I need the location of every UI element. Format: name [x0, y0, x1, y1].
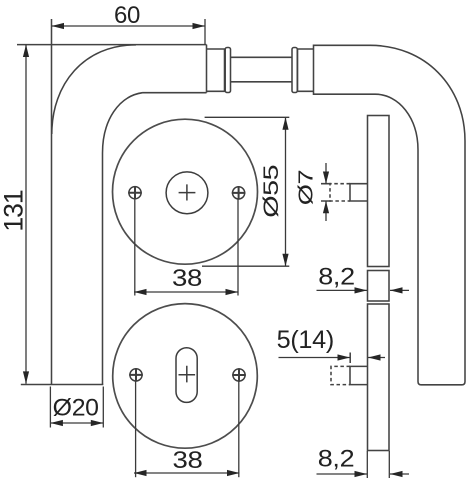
- arrowhead 38 lower right: [227, 470, 240, 476]
- arrowhead 38 upper left: [134, 289, 147, 295]
- svg-text:5(14): 5(14): [277, 326, 334, 354]
- dimension 38 upper line: [134, 291, 238, 293]
- arrowhead D20 right: [91, 420, 104, 426]
- rosette side-view upper plate: [368, 116, 390, 267]
- lower rosette keyhole oval: [176, 348, 197, 403]
- arrowhead 60 left: [52, 23, 65, 29]
- lower rosette right screw: [232, 368, 246, 381]
- dimension 38 lower left extension: [135, 382, 137, 478]
- svg-text:Ø7: Ø7: [295, 170, 317, 206]
- arrowhead 131 top: [23, 45, 29, 57]
- svg-text:131: 131: [0, 190, 28, 231]
- dimension 5(14) leader line: [279, 357, 386, 359]
- rosette side-view middle spacer: [368, 271, 390, 302]
- arrowhead D55 top: [282, 117, 288, 129]
- dimension D20 left extension: [49, 387, 51, 428]
- dimension 60 line: [52, 25, 206, 27]
- lower rosette left screw: [129, 368, 143, 381]
- upper rosette spindle cross: [179, 184, 196, 200]
- arrowhead 8,2 lower left: [355, 471, 368, 477]
- svg-text:Ø55: Ø55: [260, 165, 283, 218]
- dimension 60 right extension line: [204, 19, 206, 45]
- upper rosette right screw: [232, 186, 246, 199]
- dimension D7 arrow lines: [325, 163, 327, 221]
- arrowhead D7 top: [323, 172, 329, 184]
- arrowhead 8,2 lower right: [390, 471, 403, 477]
- spindle collar right: [298, 49, 314, 91]
- dimension D55 bottom extension: [202, 265, 289, 267]
- upper rosette circle front view: [113, 119, 258, 264]
- arrowhead 5(14) left: [338, 354, 351, 360]
- dimension D20 line: [50, 422, 103, 424]
- svg-text:Ø20: Ø20: [53, 395, 99, 422]
- dimension D55 top extension: [205, 116, 290, 118]
- dimension 38 lower right extension: [238, 382, 240, 478]
- arrowhead 60 right: [193, 23, 206, 29]
- lever handle left neck end edge: [206, 45, 208, 93]
- upper rosette handle bearing circle: [166, 172, 208, 214]
- lever handle left grip inner edge: [102, 153, 104, 385]
- lower rosette circle front view: [113, 304, 258, 449]
- arrowhead 8,2 upper right: [390, 287, 403, 293]
- arrowhead 38 lower left: [134, 470, 147, 476]
- lever handle right side-view outline: [314, 45, 466, 385]
- lever handle left inner corner curve: [103, 93, 143, 153]
- lower stub dimension tick: [349, 353, 351, 364]
- upper spindle stub hidden part dashed: [330, 184, 350, 201]
- spindle bar bottom edge: [231, 81, 293, 83]
- dimension D55 line: [285, 117, 287, 266]
- dimension 38 upper left extension: [134, 200, 136, 296]
- dimension 8,2 lower arrow lines: [317, 473, 410, 475]
- svg-text:60: 60: [114, 2, 140, 29]
- arrowhead 8,2 upper left: [355, 287, 368, 293]
- dimension 8,2 lower extensions: [367, 451, 389, 478]
- arrowhead D20 left: [50, 420, 63, 426]
- arrowhead D55 bottom: [282, 254, 288, 266]
- lever handle left neck bottom edge: [143, 92, 207, 94]
- dimension 38 upper right extension: [237, 200, 239, 296]
- svg-text:8,2: 8,2: [318, 446, 355, 473]
- dimension 38 lower line: [134, 472, 240, 474]
- spindle collar left: [207, 49, 225, 91]
- svg-text:8,2: 8,2: [318, 264, 355, 291]
- upper stub dimension ticks: [321, 184, 331, 201]
- spindle ring right: [292, 48, 297, 93]
- lever handle left grip outer edge with 60 extension: [51, 19, 53, 385]
- lever handle left outer corner curve: [52, 45, 136, 134]
- dimension 8,2 upper arrow lines: [317, 289, 410, 291]
- arrowhead D7 bottom: [323, 201, 329, 213]
- arrowhead 5(14) right: [368, 354, 381, 360]
- rosette side-view lower plate: [368, 304, 390, 451]
- upper spindle stub solid part: [350, 184, 368, 201]
- lever handle left grip bottom edge with 131 extension: [21, 384, 104, 386]
- dimension D20 right extension: [102, 387, 104, 428]
- lower key stub solid part: [350, 366, 368, 384]
- arrowhead 38 upper right: [226, 289, 239, 295]
- lever handle left front-view outline top edge with 131 extension: [17, 44, 207, 46]
- lower key stub hidden part dashed: [331, 366, 350, 384]
- dimension 131 line: [25, 45, 27, 384]
- spindle ring left: [225, 48, 230, 93]
- svg-text:38: 38: [172, 265, 202, 292]
- arrowhead 131 bottom: [23, 371, 29, 383]
- upper rosette left screw: [128, 186, 142, 199]
- lower rosette key cross: [179, 366, 196, 383]
- spindle bar top edge: [231, 56, 293, 58]
- svg-text:38: 38: [173, 447, 203, 474]
